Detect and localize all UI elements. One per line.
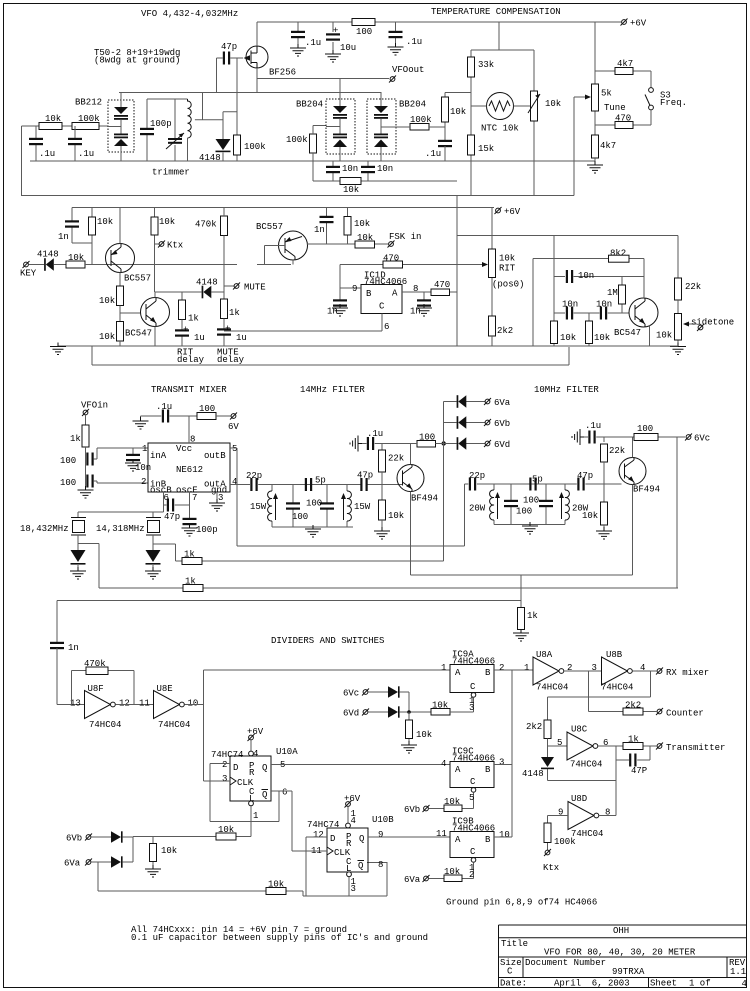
terminal Ktx tap bbox=[155, 243, 160, 245]
wire pin1 row bbox=[97, 447, 148, 449]
svg-text:22k: 22k bbox=[609, 446, 625, 456]
svg-text:1n: 1n bbox=[68, 643, 79, 653]
svg-text:.1u: .1u bbox=[305, 38, 321, 48]
terminal MUTE bbox=[224, 285, 234, 287]
svg-text:10k: 10k bbox=[97, 217, 113, 227]
switch S3 bbox=[649, 88, 654, 93]
resistor 2k2 rit bbox=[489, 316, 496, 336]
svg-text:4: 4 bbox=[351, 816, 356, 826]
wiper wire from below bbox=[574, 97, 586, 196]
wire fsk emitter row bbox=[307, 243, 388, 245]
svg-text:1: 1 bbox=[142, 444, 147, 454]
svg-text:6Va: 6Va bbox=[494, 398, 511, 408]
wire collector 14 bbox=[410, 444, 412, 465]
resistor 1k divider input bbox=[520, 575, 522, 608]
capacitor 1u mute bbox=[223, 319, 225, 347]
resistor 1k vfoin bbox=[85, 415, 87, 425]
svg-text:22k: 22k bbox=[388, 454, 404, 464]
svg-text:2k2: 2k2 bbox=[625, 701, 641, 711]
svg-text:74HC04: 74HC04 bbox=[570, 760, 602, 770]
svg-text:1u: 1u bbox=[236, 333, 247, 343]
svg-text:100: 100 bbox=[292, 512, 308, 522]
svg-text:U8C: U8C bbox=[571, 725, 588, 735]
svg-text:10k: 10k bbox=[450, 107, 466, 117]
svg-text:1k: 1k bbox=[70, 434, 81, 444]
svg-text:74HC04: 74HC04 bbox=[601, 683, 633, 693]
svg-text:3: 3 bbox=[351, 884, 356, 894]
resistor 10k row181 bbox=[340, 178, 361, 185]
svg-text:+: + bbox=[183, 325, 188, 335]
svg-text:VFO 4,432-4,032MHz: VFO 4,432-4,032MHz bbox=[141, 9, 238, 19]
wire pin7 bbox=[189, 492, 191, 519]
svg-text:Tune: Tune bbox=[604, 103, 626, 113]
svg-text:U8D: U8D bbox=[571, 794, 587, 804]
svg-text:6V: 6V bbox=[228, 422, 239, 432]
wire mixer out row y484.5 bbox=[230, 484, 403, 486]
svg-text:10k: 10k bbox=[354, 219, 370, 229]
svg-text:470k: 470k bbox=[195, 220, 217, 230]
wire RIT column x457 bbox=[456, 196, 458, 347]
capacitor 10n osc top bbox=[554, 276, 644, 278]
svg-text:15W: 15W bbox=[354, 502, 371, 512]
wire pin3 ground bbox=[216, 492, 218, 503]
svg-text:10n: 10n bbox=[135, 463, 151, 473]
terminal 6Vd switch bbox=[362, 709, 369, 716]
capacitor 10n pin1 bbox=[132, 448, 134, 455]
svg-text:2: 2 bbox=[222, 760, 227, 770]
resistor 10k bias2 bbox=[603, 484, 605, 502]
svg-text:1n: 1n bbox=[314, 225, 325, 235]
svg-text:A: A bbox=[455, 668, 461, 678]
svg-text:+: + bbox=[333, 26, 338, 36]
capacitor .1u left2 bbox=[74, 126, 76, 161]
wire u8b out feedback bbox=[548, 671, 651, 720]
temp comp box wires bbox=[471, 22, 534, 196]
svg-text:BF256: BF256 bbox=[269, 68, 296, 78]
svg-text:9: 9 bbox=[352, 284, 357, 294]
inductor 20W left bbox=[493, 484, 495, 525]
potentiometer 10k temp bbox=[531, 91, 538, 121]
resistor 100 top rail bbox=[352, 19, 375, 26]
svg-text:.1u: .1u bbox=[406, 37, 422, 47]
resistor 1k xtal1 row bbox=[99, 587, 678, 589]
svg-text:10k: 10k bbox=[499, 254, 515, 264]
svg-text:sidetone: sidetone bbox=[691, 318, 734, 328]
svg-text:TEMPERATURE COMPENSATION: TEMPERATURE COMPENSATION bbox=[431, 7, 561, 17]
svg-text:C: C bbox=[379, 302, 385, 312]
svg-text:.1u: .1u bbox=[78, 149, 94, 159]
svg-text:9: 9 bbox=[378, 830, 383, 840]
ground bbox=[290, 44, 306, 56]
wire pin6 bbox=[163, 492, 165, 512]
diode xtal1 bbox=[71, 550, 86, 562]
svg-text:U8B: U8B bbox=[606, 650, 623, 660]
svg-text:74HC04: 74HC04 bbox=[158, 720, 190, 730]
svg-text:74HC4066: 74HC4066 bbox=[364, 277, 407, 287]
resistor 10k fsk series bbox=[355, 241, 375, 248]
svg-text:12: 12 bbox=[313, 830, 324, 840]
svg-text:100k: 100k bbox=[286, 135, 308, 145]
svg-text:1: 1 bbox=[441, 663, 446, 673]
ground sidetone bbox=[670, 343, 686, 355]
svg-text:74HC74: 74HC74 bbox=[211, 750, 243, 760]
wire drain to rail bbox=[256, 22, 258, 46]
resistor 33k bbox=[468, 57, 475, 77]
resistor 10k 6vd pull bbox=[408, 712, 410, 745]
svg-text:.1u: .1u bbox=[156, 402, 172, 412]
terminal FSK in bbox=[388, 241, 395, 248]
svg-text:10k: 10k bbox=[432, 701, 448, 711]
wire emitter1 down bbox=[410, 492, 412, 576]
svg-text:10MHz FILTER: 10MHz FILTER bbox=[534, 385, 599, 395]
capacitor .1u bias1 bbox=[350, 436, 362, 452]
trimmer capacitor bbox=[174, 99, 176, 161]
resistor 10k sidetone2 bbox=[588, 313, 590, 346]
resistor 100k osc bbox=[236, 58, 238, 161]
svg-text:4148: 4148 bbox=[199, 153, 221, 163]
resistor 100k left bbox=[72, 123, 99, 130]
svg-text:D: D bbox=[233, 763, 238, 773]
diode 4148 div bbox=[547, 746, 549, 757]
ground mid left bbox=[50, 343, 66, 355]
svg-text:11: 11 bbox=[139, 699, 150, 709]
svg-text:100k: 100k bbox=[554, 837, 576, 847]
svg-text:10k: 10k bbox=[99, 332, 115, 342]
capacitor 100 in1 bbox=[86, 447, 98, 490]
svg-text:47p: 47p bbox=[164, 512, 180, 522]
inductor 15W right bbox=[346, 485, 348, 528]
capacitor 47p osc bbox=[164, 504, 190, 506]
svg-text:6Vc: 6Vc bbox=[343, 689, 359, 699]
capacitor 5p f2 bbox=[529, 478, 536, 491]
svg-text:10k: 10k bbox=[388, 511, 404, 521]
svg-text:trimmer: trimmer bbox=[152, 168, 190, 178]
capacitor 100p bbox=[183, 518, 197, 525]
svg-text:.1u: .1u bbox=[39, 149, 55, 159]
svg-text:4: 4 bbox=[742, 979, 747, 989]
svg-text:47P: 47P bbox=[631, 766, 647, 776]
svg-text:6Va: 6Va bbox=[404, 875, 421, 885]
resistor 1k rit delay bbox=[181, 292, 183, 300]
svg-text:Freq.: Freq. bbox=[660, 98, 687, 108]
svg-text:1.1: 1.1 bbox=[730, 967, 746, 977]
svg-text:100: 100 bbox=[60, 456, 76, 466]
ground tune bbox=[587, 161, 603, 173]
svg-text:VFOout: VFOout bbox=[392, 65, 424, 75]
svg-text:1u: 1u bbox=[194, 333, 205, 343]
svg-text:BB204: BB204 bbox=[296, 100, 323, 110]
svg-text:1 of: 1 of bbox=[689, 979, 711, 989]
resistor 2k2 u8c bbox=[544, 720, 551, 739]
capacitor 100 f1 bbox=[292, 485, 294, 528]
capacitor .1u ntc bbox=[438, 140, 452, 147]
svg-text:3: 3 bbox=[592, 663, 597, 673]
resistor 2k2 counter bbox=[623, 708, 643, 715]
svg-text:Vcc: Vcc bbox=[176, 444, 192, 454]
svg-text:10k: 10k bbox=[268, 880, 284, 890]
ic9a control pin13 bbox=[471, 693, 476, 698]
svg-text:14MHz FILTER: 14MHz FILTER bbox=[300, 385, 365, 395]
wire tank top row bbox=[119, 58, 381, 120]
svg-text:22p: 22p bbox=[246, 471, 262, 481]
wire base link bc547 bbox=[120, 312, 141, 314]
svg-text:BC557: BC557 bbox=[124, 274, 151, 284]
svg-text:0.1 uF capacitor between suppl: 0.1 uF capacitor between supply pins of … bbox=[131, 933, 428, 943]
svg-text:BC557: BC557 bbox=[256, 222, 283, 232]
transistor BF494 right bbox=[619, 458, 646, 485]
svg-text:Ground pin 6,8,9 of74 HC4066: Ground pin 6,8,9 of74 HC4066 bbox=[446, 898, 597, 908]
svg-text:B: B bbox=[485, 668, 491, 678]
transistor BC557 fsk bbox=[279, 231, 308, 260]
resistor 10k bias1 bbox=[379, 500, 386, 520]
svg-text:Ktx: Ktx bbox=[167, 241, 183, 251]
wire u8e out bbox=[184, 670, 450, 781]
terminal Transmitter bbox=[656, 743, 663, 750]
wire key base row bbox=[85, 264, 291, 266]
svg-text:1n: 1n bbox=[410, 307, 421, 317]
inductor T50-2 tapped coil bbox=[188, 99, 192, 138]
inductor 15W left bbox=[271, 485, 273, 528]
capacitor 10n base1 bbox=[554, 312, 565, 314]
wire mid bottom rail bbox=[58, 345, 678, 347]
svg-text:3: 3 bbox=[222, 774, 227, 784]
svg-text:U10A: U10A bbox=[276, 747, 298, 757]
svg-text:100: 100 bbox=[356, 27, 372, 37]
svg-text:10: 10 bbox=[499, 830, 510, 840]
wire sidetone top row bbox=[457, 236, 678, 347]
svg-text:2: 2 bbox=[499, 663, 504, 673]
resistor 100k varactor left bbox=[310, 134, 317, 153]
svg-text:Counter: Counter bbox=[666, 709, 704, 719]
wire fsk base bbox=[265, 246, 286, 265]
resistor 4k7 lower bbox=[592, 135, 599, 158]
svg-text:U8E: U8E bbox=[157, 684, 173, 694]
wire varactor bias row y125.5 bbox=[313, 125, 326, 127]
wire bus x512 bbox=[511, 670, 513, 837]
svg-text:5p: 5p bbox=[315, 476, 326, 486]
ic NE612 bbox=[148, 443, 230, 492]
svg-text:4148: 4148 bbox=[37, 250, 59, 260]
inductor 20W right bbox=[564, 484, 566, 525]
wire VFOout row bbox=[257, 68, 389, 79]
svg-text:6Vc: 6Vc bbox=[694, 434, 710, 444]
svg-text:VFOin: VFOin bbox=[81, 401, 108, 411]
wire filter2 row y481 bbox=[465, 483, 622, 485]
svg-text:RIT: RIT bbox=[499, 264, 516, 274]
svg-text:B: B bbox=[485, 835, 491, 845]
capacitor 22p f1 bbox=[250, 478, 257, 491]
svg-text:BF494: BF494 bbox=[411, 494, 438, 504]
svg-text:KEY: KEY bbox=[20, 269, 37, 279]
resistor 10k fsk pull bbox=[347, 208, 349, 245]
svg-text:1M: 1M bbox=[607, 288, 618, 298]
svg-text:4148: 4148 bbox=[522, 769, 544, 779]
svg-text:100: 100 bbox=[516, 507, 532, 517]
svg-text:470: 470 bbox=[434, 280, 450, 290]
svg-text:10k: 10k bbox=[161, 846, 177, 856]
wire +6V rail mid bbox=[72, 207, 494, 209]
resistor 470k bbox=[221, 216, 228, 236]
svg-text:BF494: BF494 bbox=[633, 485, 660, 495]
wire emitter2 down bbox=[632, 485, 634, 576]
svg-text:74HC04: 74HC04 bbox=[89, 720, 121, 730]
svg-text:11: 11 bbox=[436, 829, 447, 839]
terminal 6Vc switch bbox=[362, 689, 369, 696]
resistor 10k bc557 coll bbox=[117, 286, 124, 306]
resistor 10k lower bbox=[117, 322, 124, 342]
svg-text:1k: 1k bbox=[527, 611, 538, 621]
resistor 100 coll1 bbox=[417, 441, 436, 448]
resistor 10k left bbox=[39, 123, 62, 130]
svg-text:outB: outB bbox=[204, 451, 226, 461]
capacitor 100 f4 bbox=[545, 484, 547, 525]
wire filter1 bottom bbox=[272, 527, 353, 529]
svg-text:100: 100 bbox=[60, 478, 76, 488]
svg-text:C: C bbox=[507, 967, 513, 977]
svg-text:47p: 47p bbox=[221, 42, 237, 52]
transistor BC547 key bbox=[141, 298, 170, 327]
svg-text:10n: 10n bbox=[596, 300, 612, 310]
wire pin5 stub bbox=[230, 448, 237, 546]
svg-text:+: + bbox=[225, 324, 230, 334]
wire emitters row y575 bbox=[411, 574, 633, 576]
svg-text:delay: delay bbox=[217, 355, 245, 365]
wire pin6 control bbox=[224, 314, 382, 332]
svg-text:Title: Title bbox=[501, 939, 528, 949]
terminal Counter bbox=[656, 708, 663, 715]
svg-text:1n: 1n bbox=[327, 307, 338, 317]
svg-text:10k: 10k bbox=[416, 730, 432, 740]
svg-text:18,432MHz: 18,432MHz bbox=[20, 524, 69, 534]
svg-text:74HC04: 74HC04 bbox=[536, 683, 568, 693]
ground bbox=[325, 50, 341, 62]
potentiometer 5k Tune bbox=[592, 84, 599, 111]
svg-text:8: 8 bbox=[378, 860, 383, 870]
svg-text:BB212: BB212 bbox=[75, 98, 102, 108]
resistor 10k key series bbox=[66, 261, 85, 268]
wire coil tap bbox=[195, 112, 237, 120]
svg-text:NE612: NE612 bbox=[176, 465, 203, 475]
transistor BF256 bbox=[246, 46, 268, 68]
terminal VFOin bbox=[82, 409, 89, 416]
title block frame bbox=[499, 925, 747, 988]
resistor 1k mute bbox=[221, 299, 228, 319]
resistor 4k7 upper bbox=[595, 71, 651, 88]
svg-text:Ktx: Ktx bbox=[543, 863, 559, 873]
svg-text:10k: 10k bbox=[444, 867, 460, 877]
capacitor 5p bbox=[305, 478, 312, 491]
svg-text:Q: Q bbox=[262, 790, 267, 800]
svg-text:RX mixer: RX mixer bbox=[666, 668, 709, 678]
svg-text:R: R bbox=[249, 768, 255, 778]
svg-text:15k: 15k bbox=[478, 144, 494, 154]
svg-text:15W: 15W bbox=[250, 502, 267, 512]
wire +6V rail top bbox=[257, 21, 621, 23]
svg-text:10k: 10k bbox=[656, 331, 672, 341]
svg-text:.1u: .1u bbox=[367, 429, 383, 439]
svg-text:FSK in: FSK in bbox=[389, 232, 421, 242]
resistor 10k ktx pullup bbox=[154, 208, 156, 293]
resistor 15k bbox=[468, 135, 475, 155]
wire counter tap bbox=[589, 671, 657, 712]
svg-text:1k: 1k bbox=[628, 735, 639, 745]
wire collector2 up bbox=[632, 437, 634, 458]
svg-text:A: A bbox=[455, 835, 461, 845]
transistor BC547 sidetone bbox=[629, 298, 658, 327]
svg-text:MUTE: MUTE bbox=[244, 283, 266, 293]
potentiometer 10k sidetone bbox=[675, 314, 682, 341]
svg-text:10k: 10k bbox=[159, 217, 175, 227]
wire left bias row bbox=[22, 126, 109, 196]
svg-text:C: C bbox=[470, 777, 476, 787]
capacitor 10n right bbox=[367, 161, 369, 181]
wire emitter up / collector down bbox=[119, 208, 121, 287]
resistor 10k va ground bbox=[152, 837, 154, 869]
svg-text:6Vd: 6Vd bbox=[343, 709, 359, 719]
capacitor 1n divider bbox=[50, 642, 64, 649]
svg-text:2k2: 2k2 bbox=[526, 722, 542, 732]
svg-text:10k: 10k bbox=[45, 114, 61, 124]
capacitor 100 in2 bbox=[86, 475, 93, 488]
potentiometer 10k RIT bbox=[491, 208, 493, 317]
svg-text:10n: 10n bbox=[377, 164, 393, 174]
capacitor 1n fsk bbox=[326, 208, 328, 245]
svg-text:10k: 10k bbox=[582, 511, 598, 521]
wire ntc link bbox=[445, 92, 471, 94]
thermistor NTC 10k bbox=[487, 93, 514, 120]
svg-text:Sheet: Sheet bbox=[650, 979, 677, 989]
svg-text:4: 4 bbox=[441, 759, 446, 769]
svg-text:DIVIDERS AND SWITCHES: DIVIDERS AND SWITCHES bbox=[271, 636, 384, 646]
svg-text:1n: 1n bbox=[58, 232, 69, 242]
svg-text:7: 7 bbox=[192, 493, 197, 503]
wire vcc pin8 bbox=[188, 416, 190, 443]
svg-text:(pos0): (pos0) bbox=[492, 280, 524, 290]
svg-text:2k2: 2k2 bbox=[497, 326, 513, 336]
wire crystal row y512 bbox=[78, 511, 164, 513]
svg-text:74HC04: 74HC04 bbox=[571, 829, 603, 839]
wire 6Vc drop x677 bbox=[676, 437, 678, 588]
svg-text:+6V: +6V bbox=[630, 19, 647, 29]
svg-text:10n: 10n bbox=[578, 271, 594, 281]
svg-text:2: 2 bbox=[141, 477, 146, 487]
wire pin2 row bbox=[97, 482, 148, 484]
svg-text:U10B: U10B bbox=[372, 815, 394, 825]
wire tune column bbox=[594, 22, 596, 135]
wire mute row y292 bbox=[155, 291, 225, 293]
svg-text:BB204: BB204 bbox=[399, 100, 426, 110]
capacitor 1u rit bbox=[181, 320, 183, 347]
svg-text:10k: 10k bbox=[218, 825, 234, 835]
svg-text:Document Number: Document Number bbox=[525, 958, 606, 968]
svg-text:10: 10 bbox=[188, 699, 199, 709]
svg-text:B: B bbox=[485, 765, 491, 775]
svg-text:6Vd: 6Vd bbox=[494, 440, 510, 450]
resistor 10k u10a reset row bbox=[133, 836, 251, 838]
terminal 6Vc bbox=[685, 434, 692, 441]
capacitor .1u bias2 bbox=[572, 429, 584, 445]
resistor 1M bbox=[621, 277, 623, 314]
terminal +6V mid bbox=[495, 207, 502, 214]
svg-text:100: 100 bbox=[306, 499, 322, 509]
capacitor 1n key bbox=[72, 208, 92, 244]
svg-text:22k: 22k bbox=[685, 282, 701, 292]
svg-text:BC547: BC547 bbox=[614, 328, 641, 338]
capacitor 100 f3 bbox=[510, 484, 512, 525]
wire section box bottom bbox=[92, 346, 569, 365]
capacitor 1n pin8 bbox=[423, 292, 425, 301]
resistor 22k sidetone bbox=[675, 278, 682, 300]
